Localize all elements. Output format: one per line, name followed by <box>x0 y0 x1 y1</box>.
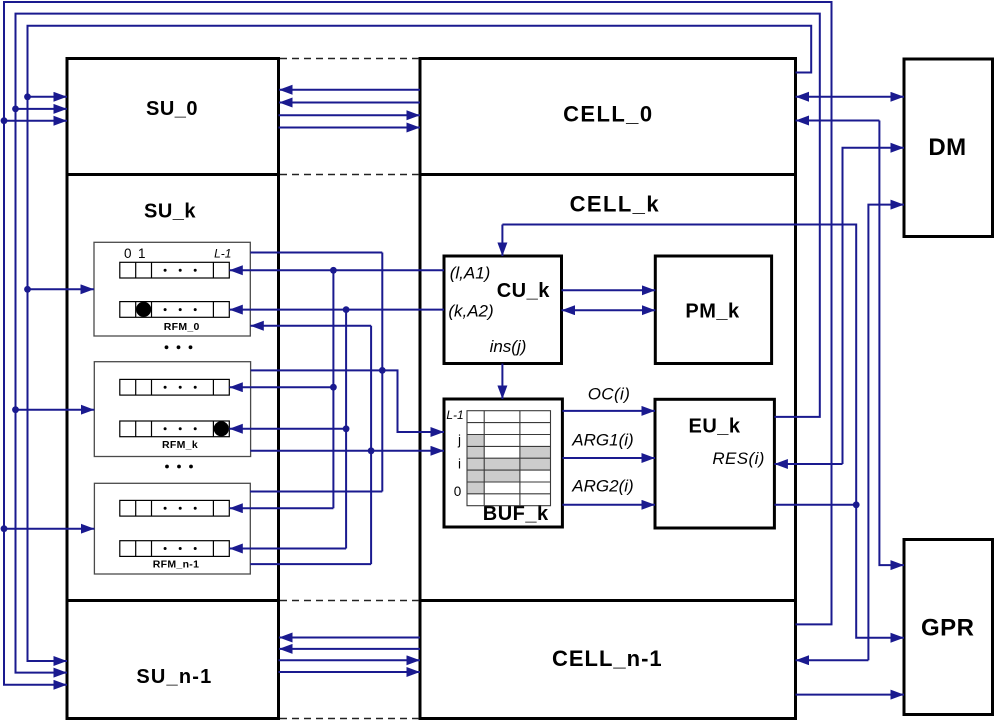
svg-text:j: j <box>457 433 461 448</box>
box PM_k <box>655 256 771 364</box>
wire CELL_0 to SU_0 bus 2 <box>279 102 420 104</box>
wire net RFM write into RFM_n-1 container <box>250 563 371 565</box>
block GPR <box>904 540 993 715</box>
box CU_k <box>444 256 562 364</box>
wire net (k,A2): CU_k to RFM_0 row 1 <box>229 309 444 311</box>
svg-text:EU_k: EU_k <box>688 416 740 438</box>
svg-text:0: 0 <box>454 484 462 499</box>
label SU_n-1 <box>136 666 212 688</box>
svg-text:RFM_k: RFM_k <box>162 439 198 451</box>
svg-text:CELL_n-1: CELL_n-1 <box>552 646 663 671</box>
divider SU_k/SU_n-1 <box>67 599 279 602</box>
wire CU_k feed line to GPR <box>502 225 904 638</box>
RFM_0 cell index label 1 <box>138 246 146 261</box>
wire CU_k to PM_k <box>562 289 656 291</box>
wire net (l,A1) into RFM_k row 0 <box>229 386 333 388</box>
wire net (k,A2) into RFM_n-1 row 1 <box>229 548 346 550</box>
wire ARG2(i): BUF_k to EU_k <box>562 504 655 506</box>
wire branch B into SU_0 <box>16 108 68 110</box>
RFM_0 register row 1 <box>120 302 230 318</box>
wire loop A: CELL_n-1 out, top ring, left ring, into SU_n-1 <box>4 2 832 685</box>
svg-text:(k,A2): (k,A2) <box>448 302 493 321</box>
wire loop C: CELL_0 out, top ring, left ring, into SU_n-1 <box>28 26 812 661</box>
label CELL_0 <box>563 101 653 126</box>
wire branch A into RFM_n-1 <box>4 528 94 530</box>
svg-text:L-1: L-1 <box>446 408 463 422</box>
svg-text:SU_k: SU_k <box>144 200 196 222</box>
RFM_0 register row 0 <box>120 262 230 278</box>
RFM_n-1 register row 0 <box>120 500 230 516</box>
signal label ARG2(i) <box>571 477 633 496</box>
wire net RFM write into RFM_0 container <box>250 325 371 327</box>
svg-text:1: 1 <box>138 246 146 261</box>
signal label ARG1(i) <box>571 430 633 449</box>
BUF_k row label j <box>457 433 461 448</box>
dashed boundary top <box>280 58 419 60</box>
label DM <box>928 134 966 161</box>
box EU_k <box>655 399 774 528</box>
RFM_k register row 0 <box>120 379 230 395</box>
wire net RFM read: RFM_n-1 top out <box>250 491 382 493</box>
svg-text:CU_k: CU_k <box>497 280 551 302</box>
block SU column <box>67 59 279 719</box>
label CU_k <box>497 280 551 302</box>
divider CELL_0/CELL_k <box>420 173 796 176</box>
svg-text:RES(i): RES(i) <box>712 449 764 468</box>
label RFM_0 <box>164 321 200 333</box>
wire SU_0 to CELL_0 bus 1 <box>279 114 421 116</box>
wire CELL_n-1 to SU_n-1 bus 2 <box>279 648 420 650</box>
RFM_n-1 register row 1 <box>120 541 230 557</box>
wire into CU_k top <box>501 225 503 257</box>
wire net RFM read vertical <box>381 253 383 492</box>
wire branch B into RFM_k <box>16 409 95 411</box>
svg-text:0: 0 <box>124 246 132 261</box>
label SU_0 <box>146 98 198 120</box>
wire into CELL_0 from GPR riser <box>796 120 880 122</box>
signal label (l,A1) <box>450 264 491 283</box>
wire into CELL_n-1 <box>796 659 869 661</box>
wire SU_n-1 to CELL_n-1 bus 1 <box>279 659 421 661</box>
wire net (l,A1) vertical <box>332 270 334 508</box>
svg-text:SU_0: SU_0 <box>146 98 198 120</box>
wire net RFM write vertical <box>370 326 372 564</box>
block CELL column <box>420 59 796 719</box>
label CELL_k <box>570 192 660 217</box>
svg-text:i: i <box>458 457 461 472</box>
wire net (k,A2) vertical <box>345 310 347 549</box>
wire net RFM write: RFM_k container to BUF_k input 2 <box>250 450 444 452</box>
wire branch C into SU_0 <box>28 96 68 98</box>
svg-text:ins(j): ins(j) <box>490 337 527 356</box>
divider SU_0/SU_k <box>67 173 279 176</box>
ellipsis between RFM_0 and RFM_k <box>165 345 193 349</box>
wire CU_k bidirectional PM_k <box>562 309 656 311</box>
wire net (l,A1) into RFM_n-1 row 0 <box>229 507 333 509</box>
signal label RES(i) <box>712 449 764 468</box>
svg-text:BUF_k: BUF_k <box>483 503 549 525</box>
svg-text:ARG2(i): ARG2(i) <box>571 477 633 496</box>
svg-text:(l,A1): (l,A1) <box>450 264 491 283</box>
svg-text:RFM_0: RFM_0 <box>164 321 200 333</box>
svg-text:GPR: GPR <box>921 614 975 641</box>
module RFM_0 container <box>94 242 250 336</box>
module RFM_n-1 container <box>94 483 250 574</box>
BUF_k buffer grid shaded cells <box>467 435 551 494</box>
wire OC(i): BUF_k to EU_k <box>562 410 655 412</box>
svg-text:RFM_n-1: RFM_n-1 <box>153 558 199 570</box>
wire CELL_0 to SU_0 bus 1 <box>279 89 420 91</box>
wire CELL_0 bidirectional DM <box>796 96 905 98</box>
wire SU_0 to CELL_0 bus 2 <box>279 127 421 129</box>
wire riser to DM 2 <box>868 205 904 661</box>
divider CELL_k/CELL_n-1 <box>420 599 796 602</box>
svg-text:PM_k: PM_k <box>685 300 740 322</box>
wire ARG1(i): BUF_k to EU_k <box>562 457 655 459</box>
label PM_k <box>685 300 740 322</box>
box BUF_k <box>444 399 562 527</box>
dashed boundary k <box>280 174 419 176</box>
wire EU_k bottom out to junction <box>774 504 856 506</box>
svg-text:OC(i): OC(i) <box>588 384 631 403</box>
wire loop B: EU_k out, top ring, left ring, into SU_n-1 <box>16 14 820 673</box>
label RFM_k <box>162 439 198 451</box>
label RFM_n-1 <box>153 558 199 570</box>
RFM_0 busy token (filled circle) <box>136 302 151 317</box>
BUF_k buffer grid lines <box>467 411 551 506</box>
wire RES(i) into EU_k <box>774 463 842 465</box>
module RFM_k container <box>94 362 250 457</box>
label SU_k <box>144 200 196 222</box>
svg-text:CELL_k: CELL_k <box>570 192 660 217</box>
ellipsis between RFM_k and RFM_n-1 <box>165 465 193 469</box>
block DM <box>904 59 993 237</box>
wire CELL_n-1 to GPR <box>796 694 905 696</box>
svg-text:ARG1(i): ARG1(i) <box>571 430 633 449</box>
label GPR <box>921 614 975 641</box>
svg-text:DM: DM <box>928 134 966 161</box>
signal label ins(j) <box>490 337 527 356</box>
RFM_0 cell index label L-1 <box>214 247 231 261</box>
wire branch A into SU_0 <box>4 120 67 122</box>
wire CELL_n-1 to SU_n-1 bus 1 <box>279 637 420 639</box>
label EU_k <box>688 416 740 438</box>
dashed boundary n-1 <box>280 600 419 602</box>
wire net RFM read: RFM_k top out to BUF_k input 1 <box>251 370 444 432</box>
BUF_k row label 0 <box>454 484 462 499</box>
RFM_k busy token (filled circle) <box>214 421 229 436</box>
svg-text:SU_n-1: SU_n-1 <box>136 666 212 688</box>
label BUF_k <box>483 503 549 525</box>
BUF_k row label L-1 <box>446 408 463 422</box>
wire ins(j): CU_k to BUF_k <box>501 364 503 400</box>
wire riser to GPR <box>879 121 904 566</box>
RFM_k register row 1 <box>120 421 230 437</box>
signal label OC(i) <box>588 384 631 403</box>
svg-text:CELL_0: CELL_0 <box>563 101 653 126</box>
wire branch C into RFM_0 <box>28 288 95 290</box>
wire SU_n-1 to CELL_n-1 bus 2 <box>279 671 421 673</box>
label CELL_n-1 <box>552 646 663 671</box>
BUF_k row label i <box>458 457 461 472</box>
wire net (l,A1): CU_k to RFM_0 row 0 <box>229 269 444 271</box>
svg-text:L-1: L-1 <box>214 247 231 261</box>
wire net (k,A2) into RFM_k row 1 <box>229 428 346 430</box>
wire net RFM read: RFM_0 container top out <box>250 252 382 254</box>
RFM_0 cell index label 0 <box>124 246 132 261</box>
signal label (k,A2) <box>448 302 493 321</box>
wire riser to DM <box>843 148 905 464</box>
dashed boundary bottom <box>280 718 419 720</box>
